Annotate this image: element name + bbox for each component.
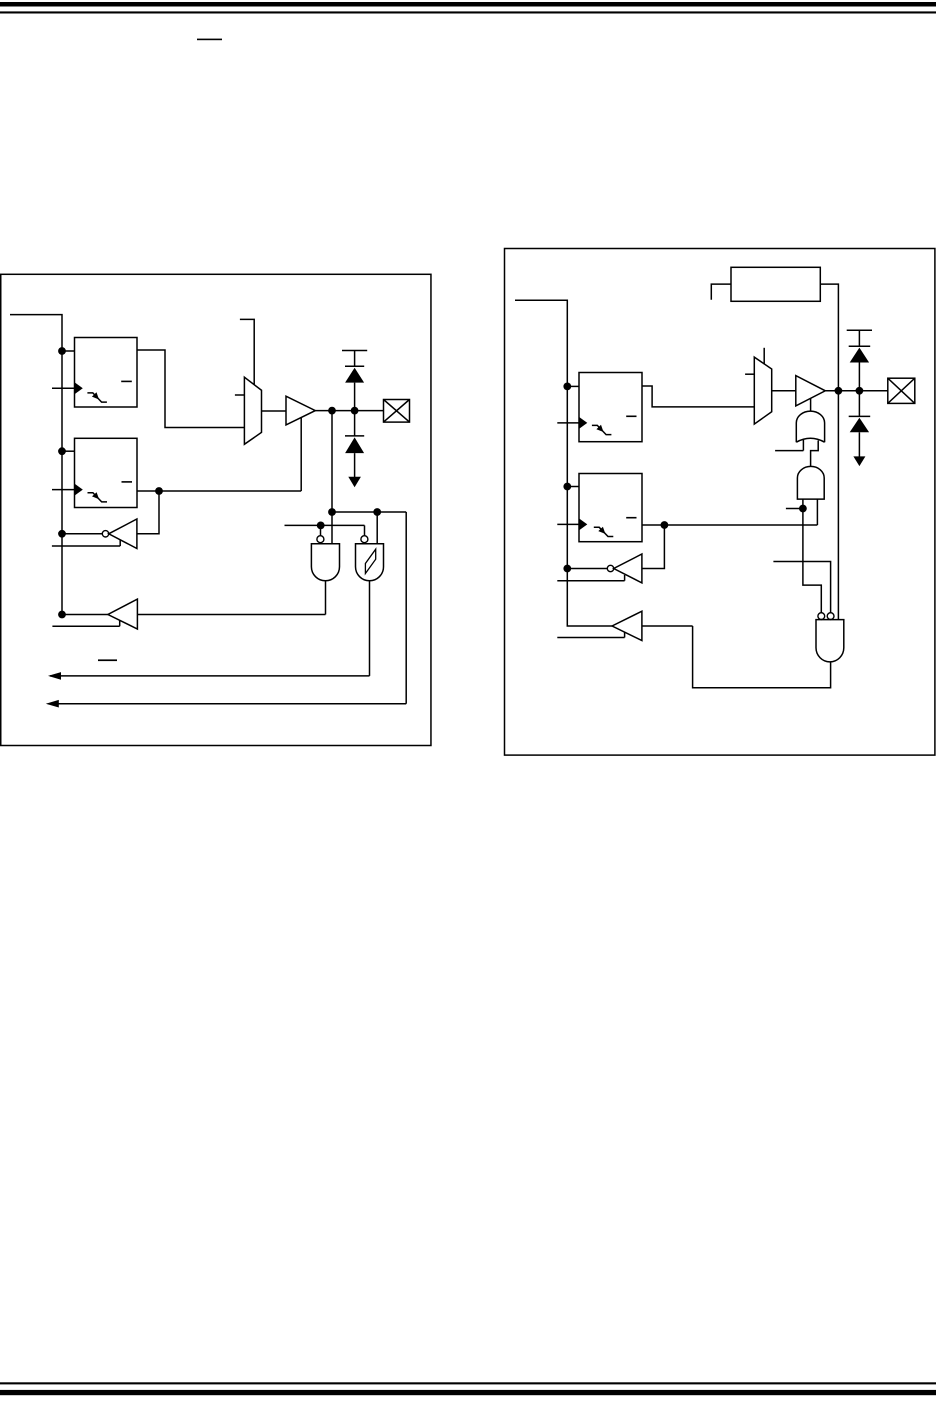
- pad symbol (left): [384, 400, 410, 423]
- node: pad net at pull-up branch: [835, 387, 843, 395]
- bubble: G1 inverted input: [317, 536, 324, 543]
- wire: MX1 second input stub: [235, 394, 245, 396]
- wire: B3 output to pad: [825, 390, 888, 392]
- inverter IN2 (points left): [614, 554, 642, 583]
- wire: MX2 second input stub: [745, 373, 754, 375]
- wire: P1 clock input: [52, 489, 75, 491]
- Vss arrow (left): [348, 477, 361, 487]
- clock arrowhead D1: [75, 382, 83, 394]
- node: pad net at diode branch: [856, 387, 864, 395]
- wire: stub to GB left input: [786, 508, 803, 510]
- right diagram outer frame: [505, 249, 935, 756]
- wire: resistor control stub: [711, 284, 731, 300]
- wire: MX2 select input: [763, 348, 765, 365]
- falling-edge arrowhead in P2: [598, 527, 605, 534]
- node: pad net / lower branch: [328, 407, 336, 415]
- wire: G1 output down to input buffer row: [325, 581, 327, 615]
- wire: B2 input from gate G1: [137, 614, 325, 616]
- Vcc rail symbol (right): [847, 330, 872, 346]
- wire: diode to pad net (right): [858, 363, 860, 391]
- label overline near arrows: [98, 659, 117, 661]
- OR gate GA (points up): [796, 411, 824, 442]
- node: bus to direction latch D2: [563, 383, 571, 391]
- wire: B1 output to pad: [315, 410, 383, 412]
- wire: right feedback drop to arrow row 2: [405, 512, 407, 704]
- diode triangle to Vss (left): [345, 437, 364, 453]
- input buffer B2 (points left): [108, 599, 137, 629]
- output buffer B3: [796, 376, 826, 406]
- falling-edge arrowhead in D1: [92, 392, 99, 399]
- wire: GB right input from port latch row: [816, 499, 818, 525]
- wire: B3 enable down to OR gate GA: [810, 398, 812, 411]
- wire: B1 enable from port latch row: [300, 418, 302, 492]
- wire: bus to P1 data input: [62, 450, 75, 452]
- wire: control net y=525.4: [285, 524, 365, 526]
- wire: stub to GA left input: [775, 450, 803, 452]
- wire: B2 output to bus: [62, 614, 108, 616]
- falling-edge arrowhead in D2: [596, 425, 603, 432]
- protection diode to Vss (right): [849, 391, 871, 464]
- port latch P2: [579, 474, 642, 542]
- wire: GA right input from AND gate GB: [811, 441, 819, 467]
- wire: resistor output down to NAND: [820, 284, 838, 619]
- input buffer B4 (points left): [612, 611, 642, 640]
- falling-edge arrowhead in P1: [92, 492, 99, 499]
- wire: IN2 input from P2 branch: [642, 525, 665, 569]
- wire: GB left input down to NAND bubble: [803, 499, 821, 613]
- bubble: IN2 output: [607, 565, 613, 571]
- label dash in P1: [122, 481, 133, 483]
- wire: bus to D2 data input: [567, 385, 579, 387]
- wire: MX1 output to output buffer B1: [262, 410, 287, 412]
- falling-edge symbol in P2: [594, 527, 614, 536]
- left diagram outer frame: [1, 274, 431, 745]
- header top thick rule: [0, 2, 936, 7]
- wire: arrow row 1 from G2: [50, 675, 370, 677]
- label dash in D2: [626, 415, 636, 417]
- arrowhead row 1: [48, 672, 61, 680]
- AND gate GB (points up): [797, 466, 824, 499]
- wire: G3 output to input buffer B4: [693, 626, 831, 688]
- wire: stub under IN2: [557, 575, 624, 581]
- node: bus to port latch P2: [563, 483, 571, 491]
- node: GB left input stub junction: [799, 505, 807, 513]
- bubble: G3 input 2: [827, 613, 834, 620]
- bubble: IN1 output: [102, 531, 108, 537]
- node: bus to direction latch D1: [58, 347, 66, 355]
- wire: D2 output to mux MX2: [642, 386, 754, 407]
- heading overline mark: [197, 39, 222, 41]
- Vss arrow (right): [853, 456, 865, 466]
- wire: diode to pad net (left): [354, 383, 356, 411]
- node: bus to inverter IN1: [58, 530, 66, 538]
- wire: data bus entry and vertical bus (left): [10, 315, 62, 615]
- NAND gate G2 (schmitt): [356, 544, 384, 581]
- wire: IN1 bubble to bus: [62, 533, 102, 535]
- wire: IN2 bubble to bus: [567, 568, 607, 570]
- wire: P2 output row: [642, 524, 817, 526]
- wire: D2 clock input: [557, 422, 579, 424]
- wire: P2 clock input: [557, 523, 579, 525]
- direction register latch D1: [75, 338, 138, 408]
- output buffer B1: [286, 396, 315, 425]
- protection diode to Vss (left): [345, 411, 364, 486]
- node: pad net / diode branch: [351, 407, 359, 415]
- wire: data bus entry and vertical bus (right): [515, 300, 612, 626]
- node: bus to port latch P1: [58, 447, 66, 455]
- wire: stub under IN1: [52, 540, 120, 546]
- wire: B4 input: [642, 625, 693, 627]
- wire: arrow row 2 from feedback: [48, 703, 406, 705]
- NAND gate G1: [311, 544, 339, 581]
- wire: branch down to inverter IN1 input: [137, 491, 159, 534]
- wire: stub under B4: [557, 632, 624, 638]
- wire: bus to P2 data input: [567, 486, 579, 488]
- direction register latch D2: [579, 373, 642, 442]
- bubble: G2 inverted input: [361, 536, 368, 543]
- arrowhead row 2: [46, 700, 59, 708]
- node: bus to input buffer B2: [58, 611, 66, 619]
- inverter IN1 (points left): [109, 519, 137, 549]
- wire: net512 down to gate G2 input: [376, 512, 378, 544]
- wire: stub to G3 input 2: [773, 562, 830, 614]
- protection diode to Vcc (left): [345, 368, 364, 383]
- wire: bus to D1 data input: [62, 350, 75, 352]
- clock arrowhead D2: [579, 417, 587, 429]
- diode triangle to Vss (right): [850, 418, 869, 433]
- footer thick rule: [0, 1390, 936, 1395]
- clock arrowhead P2: [579, 518, 587, 530]
- node: net512 at gate G1 branch: [328, 508, 336, 516]
- wire: MX2 output to output buffer B3: [772, 390, 796, 392]
- label dash in P2: [626, 517, 636, 519]
- footer thin rule: [0, 1382, 936, 1384]
- falling-edge symbol in D2: [592, 425, 612, 434]
- node: bus to inverter IN2: [563, 565, 571, 573]
- wire: pad net down to gate G1 input: [331, 411, 333, 544]
- falling-edge symbol in P1: [88, 493, 108, 502]
- wire: P1 output row: [137, 490, 301, 492]
- pad symbol (right): [888, 378, 915, 403]
- schmitt hysteresis glyph in G2: [365, 549, 375, 573]
- falling-edge symbol in D1: [87, 393, 107, 402]
- label dash in D1: [121, 380, 132, 382]
- wire: D1 clock input: [52, 387, 75, 389]
- wire: stub to G2 bubble: [364, 525, 366, 535]
- wire: stub to G1 bubble: [320, 525, 322, 535]
- node: P1 output to inverter branch: [155, 487, 163, 495]
- node: P2 output to inverter branch: [661, 521, 669, 529]
- node: control net at G1 bubble: [317, 522, 325, 530]
- node: net512 at gate G2 branch: [373, 508, 381, 516]
- wire: D1 output to mux MX1: [137, 350, 244, 428]
- port latch P1: [75, 438, 138, 507]
- bubble: G3 input 1: [818, 613, 825, 620]
- wire: GA left input: [802, 440, 804, 451]
- mux MX2: [754, 357, 771, 424]
- header thin rule: [0, 11, 936, 13]
- Vcc rail symbol (left): [342, 351, 367, 367]
- protection diode to Vcc (right): [850, 348, 869, 363]
- pull-up resistor: [731, 267, 820, 301]
- clock arrowhead P1: [75, 484, 83, 496]
- mux MX1: [244, 377, 261, 444]
- NAND gate G3 (points down): [816, 620, 844, 662]
- wire: G2 output down to arrow row 1: [369, 581, 371, 676]
- wire: stub under B2: [52, 620, 119, 626]
- wire: horizontal net y=512: [332, 511, 407, 513]
- wire: MX1 select input: [240, 319, 254, 384]
